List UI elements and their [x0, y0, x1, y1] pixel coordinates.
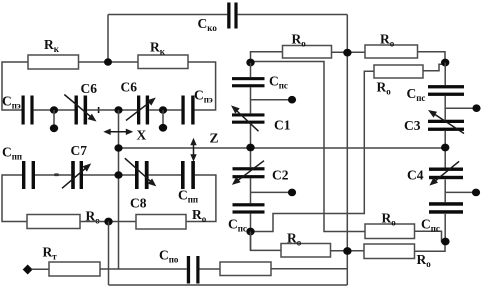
wire row2 Cpp-left to C7 — [35, 174, 71, 176]
svg-text:С2: С2 — [272, 168, 289, 183]
resistor RoA (top right 1) — [283, 46, 332, 59]
wire bottom-left Ro to RoE through junction — [331, 250, 365, 252]
wire RoD right end to C4 branch bottom node — [415, 231, 446, 241]
node bottom Ro junction — [343, 247, 351, 255]
node C1 branch on Z line — [246, 144, 254, 152]
resistor RoE (bottom right lower) — [364, 244, 415, 259]
svg-text:С4: С4 — [407, 168, 424, 183]
resistor Ro output (after Cpo) — [220, 262, 271, 276]
wire top rail from node above Rk junction to Cko — [108, 14, 227, 16]
resistor Ro bottom-left — [281, 244, 331, 258]
arrow through C8 — [125, 158, 157, 186]
svg-text:С6: С6 — [121, 80, 138, 95]
wire bottom rail — [109, 284, 348, 286]
wire top rail from Cko to right long vertical — [238, 14, 348, 16]
wire long vertical x=347 from top rail through Ro junctions down to bottom rail — [346, 15, 348, 286]
resistor Rk2 — [138, 55, 188, 69]
wire row1 C6a to C6b through centre node — [87, 109, 137, 111]
resistor Ro row3 left — [27, 215, 80, 229]
node C2 branch bottom — [246, 228, 254, 236]
arrow through C1 — [231, 105, 259, 131]
capacitor C4 (variable) — [429, 168, 463, 180]
wire vertical from top rail down to Rk junction node — [107, 15, 109, 63]
svg-text:С1: С1 — [274, 118, 291, 133]
terminal diamond Rt input — [23, 265, 33, 275]
wire Rk row left bracket: left end down to Spe row — [2, 62, 28, 110]
wire row2 left bracket down to Ro row — [2, 175, 27, 222]
wire centre electrode vertical x=118.5 down to Cpo row — [118, 110, 120, 269]
wire RoC right end up to C3 branch top node — [423, 64, 442, 71]
wire stub right of C3-branch Cps to terminal — [445, 107, 473, 109]
wire vertical x=108.5 from Ro junction down to bottom rail — [108, 222, 110, 286]
node Ro row junction — [104, 218, 112, 226]
Z axis double arrow — [190, 138, 196, 162]
capacitor Cps (C4 branch bottom) — [429, 202, 463, 214]
capacitor Cps (C1 branch top) — [232, 77, 265, 87]
wire Rk2 right end to right bracket down to Spe row — [188, 62, 216, 110]
resistor RoC (second row right) — [374, 65, 423, 78]
wire row2 right bracket down to Ro row — [186, 175, 216, 222]
resistor Rt — [49, 262, 100, 276]
node row1 left electrode tap — [50, 106, 58, 114]
arrow through C6 right — [126, 98, 156, 121]
node terminal right of Cps — [288, 96, 296, 104]
wire Ro row between resistors through junction — [80, 221, 136, 223]
arrow through C4 — [429, 161, 459, 185]
node terminal right of C4 — [472, 189, 480, 197]
node Z at centre electrode — [114, 144, 122, 152]
capacitor C1 (variable) — [232, 113, 265, 123]
wire output resistor right to long vertical — [271, 268, 347, 270]
capacitor C6 (right variable) — [137, 96, 149, 125]
node terminal dot below row1 left tap — [50, 124, 58, 132]
svg-text:С8: С8 — [130, 196, 147, 211]
svg-text:X: X — [137, 128, 147, 143]
capacitor Cpp right — [181, 161, 195, 189]
wire Cpo to output resistor — [200, 268, 221, 270]
capacitor Cps (C3 branch top) — [428, 85, 464, 96]
node Rk junction — [104, 58, 112, 65]
capacitor C2 (variable) — [233, 167, 265, 178]
wire stub right of C2 to terminal — [251, 191, 290, 193]
wire RoB right end to C3 branch top node — [418, 52, 446, 63]
wire RoC left end to long vertical x=364 down to y=213.5 and left to C2 bottom step — [254, 71, 374, 231]
wire row1 from Cpe-left to C6a through left electrode node — [34, 109, 75, 111]
resistor Ro row3 right — [136, 215, 186, 230]
node top Ro junction — [343, 49, 351, 57]
node terminal right of C3 branch — [472, 104, 480, 112]
capacitor Cpp left — [22, 161, 35, 189]
node C3 branch on Z line — [441, 144, 449, 152]
wire between Rk1 and Rk2 through junction — [79, 61, 139, 63]
node row1 right electrode tap — [159, 106, 167, 114]
svg-text:С3: С3 — [404, 118, 421, 133]
node terminal right of C2 — [288, 189, 296, 197]
svg-text:С7: С7 — [71, 143, 88, 158]
capacitor Cpe left — [22, 96, 34, 125]
capacitor C6 (left variable) — [75, 96, 88, 125]
capacitor Cpe right — [181, 96, 194, 125]
wire C2 bottom node down and right to bottom-left Ro — [251, 232, 282, 251]
wire Rt to Cpo — [100, 268, 187, 270]
resistor RoD (bottom right upper) — [365, 224, 415, 239]
capacitor Cps (C2 branch bottom) — [233, 203, 265, 213]
wire Z horizontal from centre electrode to right resonator branch — [119, 147, 446, 149]
wire C1 top node right along y=61.5 then down long vertical x=324 to RoD left — [251, 62, 366, 232]
wire diamond to Rt — [32, 268, 50, 270]
wire RoE right end up to C4 branch bottom node — [415, 242, 446, 252]
capacitor Cpo — [187, 256, 200, 284]
node C1 branch top — [246, 59, 254, 67]
node C3 branch top — [441, 59, 449, 67]
arrow through C2 — [232, 161, 264, 185]
wire row2 C7 to C8 through centre node — [83, 174, 135, 176]
wire row1 C6b to Cpe-right through right electrode node — [149, 109, 181, 111]
capacitor C7 (variable) — [71, 161, 83, 189]
node terminal dot below row1 right tap — [159, 124, 167, 132]
wire stub down from row1 right tap — [162, 110, 164, 125]
blob mark on row2 wire left of C7 — [54, 174, 59, 177]
resistor RoB (top right 2) — [365, 45, 418, 58]
tick on wire right of C6 left — [98, 107, 100, 113]
wire C3 branch vertical segments — [444, 63, 446, 242]
svg-text:С6: С6 — [81, 81, 98, 96]
arrow through C7 — [62, 163, 91, 188]
node row2 centre — [114, 171, 122, 179]
X axis double arrow — [103, 129, 133, 135]
capacitor C3 (variable) — [428, 120, 464, 131]
wire stub right of C4 to terminal — [445, 191, 472, 193]
arrow through C6 left — [64, 95, 96, 122]
wire C1 branch vertical segments — [250, 63, 252, 251]
capacitor Cko — [227, 3, 237, 29]
wire stub right of Cps to terminal — [251, 99, 290, 101]
arrow through C3 — [428, 110, 464, 134]
wire stub down from row1 left tap — [53, 110, 55, 125]
wire RoA left end down to C1 branch top node — [251, 52, 283, 63]
wire RoA to RoB through junction on long vertical — [332, 51, 366, 53]
resistor Rk1 — [28, 55, 79, 69]
node C4 branch bottom — [441, 238, 449, 246]
node row1 centre (X electrode) — [114, 106, 122, 114]
svg-text:Z: Z — [210, 131, 219, 146]
capacitor C8 (variable) — [135, 161, 149, 189]
wire row2 C8 to Cpp-right — [149, 174, 181, 176]
